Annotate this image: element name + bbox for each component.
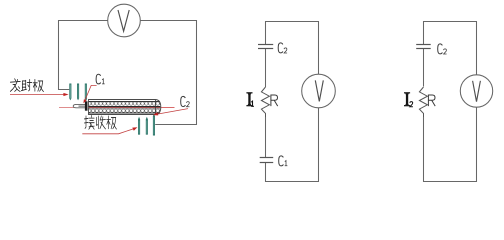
leader C2 arrow to receiver bar bbox=[153, 109, 188, 116]
emitter electrode bars (3 teal) bbox=[69, 84, 87, 102]
收 bbox=[96, 116, 105, 129]
capacitor C2 (middle circuit) bbox=[258, 45, 273, 49]
middle dark band bbox=[89, 106, 161, 108]
capacitor C1 (middle bottom) bbox=[260, 158, 274, 163]
sensor body (hatched cylinder) bbox=[89, 100, 161, 115]
label C2 (left circuit) bbox=[181, 96, 190, 106]
label 发射极 (emitter) bbox=[10, 79, 43, 92]
leader 发射极 arrow bbox=[10, 93, 69, 96]
receiver electrode bars (3 teal) bbox=[138, 114, 155, 136]
label I2 bbox=[404, 92, 413, 107]
label 接收极 (receiver) bbox=[84, 115, 116, 129]
red axis centerline left segment bbox=[59, 107, 74, 109]
wire top-right down to receiver bottom bbox=[141, 21, 197, 125]
射 bbox=[21, 79, 32, 91]
red axis centerline right segment bbox=[160, 107, 175, 109]
sensor probe tip capsule bbox=[73, 104, 85, 107]
voltmeter V3 (right circuit) bbox=[460, 75, 492, 107]
leader 接收极 arrow bbox=[82, 127, 137, 134]
wire top-left from voltmeter to emitter bars bbox=[59, 21, 108, 90]
label I1 bbox=[246, 92, 254, 106]
极 bbox=[33, 79, 43, 91]
wires bbox=[424, 22, 477, 76]
label C1 (left circuit) bbox=[96, 74, 105, 84]
capacitor C2 (right) bbox=[416, 45, 431, 49]
voltmeter V1 (left circuit) bbox=[108, 4, 141, 37]
极 bbox=[107, 116, 117, 129]
leader C1 arrow bbox=[83, 85, 96, 103]
wires bbox=[266, 22, 319, 75]
发 bbox=[10, 79, 20, 92]
resistor R (middle) bbox=[261, 87, 269, 117]
接 bbox=[84, 115, 94, 129]
resistor R (right) bbox=[419, 87, 427, 117]
voltmeter V2 (middle circuit) bbox=[302, 74, 336, 108]
sensor collar bbox=[85, 101, 88, 110]
